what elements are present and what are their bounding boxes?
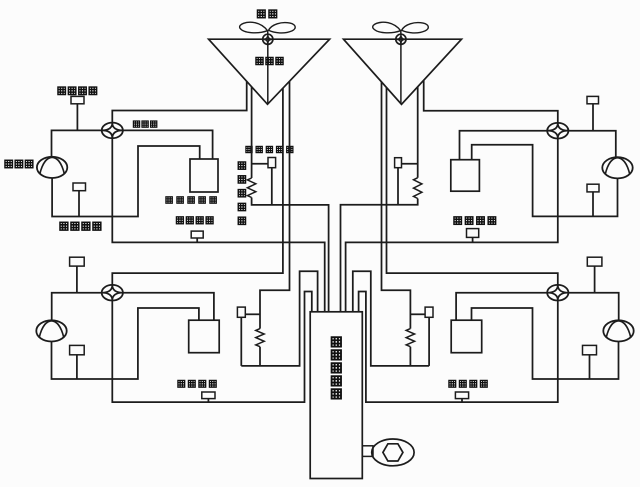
- four-way valve V4: [547, 285, 568, 301]
- condenser triangle E2: [344, 39, 462, 104]
- pressure switch label TL (压力开关): [176, 217, 183, 224]
- switch S8: [70, 345, 85, 354]
- wire: EV1 bottom stem: [271, 168, 273, 205]
- switch S10: [587, 257, 602, 266]
- compressor C2: [602, 157, 632, 178]
- wire: EV3 bottom stem: [240, 317, 242, 366]
- water pump PU: [372, 439, 414, 466]
- electronic expansion valve EV1: [268, 158, 276, 168]
- wire: EV2 bottom stem: [397, 168, 399, 205]
- wire: C1 bottom to low-pressure loop: [52, 146, 200, 217]
- compressor label (压缩机): [5, 160, 13, 168]
- capillary CT3 zigzag: [256, 329, 264, 347]
- wire: E1 right slope to capillary CT3: [260, 81, 290, 328]
- compressor C3: [36, 320, 66, 341]
- expansion valve EV3: [237, 307, 245, 317]
- condenser triangle E1: [209, 39, 330, 104]
- wire: E1 left slope down to capillary CT1: [251, 87, 253, 178]
- wire: CT4 loop to heat exchanger: [353, 271, 429, 366]
- wire: CT1 to heat exchanger: [252, 198, 329, 312]
- wire: valve V3 right port to separator A3: [123, 293, 214, 320]
- wire: C2 bottom loop to separator A2: [472, 145, 618, 217]
- capillary label vertical (储热毛细管): [238, 162, 245, 169]
- wire: S3 stem: [196, 238, 198, 242]
- high pressure switch label (高压开关): [58, 87, 66, 95]
- wire: valve V1 bottom to heat exchanger: [112, 138, 324, 311]
- compressor C4: [603, 320, 633, 341]
- wire: E1 left slope to valve V1 top: [112, 81, 246, 122]
- wire: EV3 inlet stub: [245, 313, 260, 315]
- low pressure switch label (低压开关): [60, 222, 68, 230]
- four-way valve label (四通阀): [133, 121, 139, 127]
- wire: S2 stem: [78, 191, 80, 217]
- wire: S4 stem: [592, 104, 594, 131]
- condenser label (冷凝器): [256, 57, 263, 64]
- wire: E2 right slope to valve V2 top: [424, 80, 558, 123]
- electronic expansion valve EV2: [395, 158, 402, 168]
- wire: S1 stem: [76, 104, 78, 131]
- pressure switch S12: [455, 392, 468, 399]
- wire: C4 bottom loop to separator A4: [472, 308, 619, 379]
- fan F2: [373, 22, 401, 33]
- expansion valve EV4: [425, 307, 433, 317]
- wire: CT2 to heat exchanger: [341, 199, 418, 312]
- four-way valve V2: [547, 123, 568, 139]
- wire: CT3 loop to heat exchanger: [241, 271, 317, 366]
- wire: valve V1 left port to compressor C1 top: [52, 130, 102, 156]
- water side heat exchanger HX: [310, 312, 362, 479]
- fan F1: [240, 22, 268, 33]
- pressure switch S3: [191, 231, 203, 238]
- wire: valve V2 right port to compressor C2 top: [569, 131, 616, 158]
- wire: E2 left slope to valve V4 top: [387, 88, 558, 285]
- wire: valve V3 bottom to heat exchanger: [112, 292, 311, 403]
- accumulator A1 (gas-liquid separator): [190, 159, 218, 192]
- accumulator A3 (gas-liquid separator): [189, 320, 220, 353]
- accumulator A4 (gas-liquid separator): [451, 320, 482, 353]
- four-way valve V3: [102, 285, 123, 301]
- wire: S8 stem: [76, 355, 78, 379]
- switch S7: [70, 257, 85, 266]
- pressure switch S9: [202, 392, 215, 399]
- fan label FJ1 (风机): [257, 10, 265, 18]
- compressor C1: [37, 157, 67, 178]
- wire: valve V4 bottom to heat exchanger: [359, 292, 558, 403]
- accumulator A2 (gas-liquid separator): [451, 160, 480, 192]
- wire: S9 stem: [207, 399, 209, 403]
- condenser E2 centre stem wire: [400, 45, 402, 104]
- condenser E1 centre stem wire: [267, 45, 269, 104]
- pressure switch label TR (压力开关): [454, 217, 462, 225]
- wire: valve V2 bottom to heat exchanger: [346, 139, 558, 312]
- wire: valve V2 left port to separator A2: [460, 131, 548, 160]
- wire: S5 stem: [592, 192, 594, 217]
- capillary CT4 zigzag: [406, 329, 414, 347]
- wire: C3 bottom loop to separator A3: [52, 308, 199, 379]
- wire: S7 stem: [76, 266, 78, 293]
- low pressure switch S2: [73, 183, 86, 191]
- high pressure switch S4: [587, 96, 599, 103]
- wire: valve V4 right port to compressor C4 top: [569, 293, 619, 321]
- capillary CT2 zigzag: [414, 178, 422, 199]
- wire: S6 stem: [472, 237, 474, 242]
- high pressure switch S1: [71, 96, 84, 103]
- wire: EEV1 inlet stub: [252, 163, 268, 165]
- pump connector stub: [362, 446, 373, 457]
- EEV label (电子膨胀阀): [246, 146, 252, 152]
- wire: valve V3 left port to compressor C3 top: [52, 293, 102, 321]
- wire: S10 stem: [594, 266, 596, 293]
- wire: E2 right slope down to capillary CT2: [417, 87, 419, 178]
- wire: valve V1 right port to separator A1: [123, 130, 213, 158]
- wire: E1 right slope to valve V3 top: [112, 88, 283, 285]
- switch S5: [587, 184, 599, 192]
- capillary CT1 zigzag: [247, 178, 255, 198]
- pressure switch S6: [467, 229, 479, 238]
- four-way valve V1: [102, 123, 123, 139]
- wire: EV4 inlet stub: [410, 313, 425, 315]
- wire: EV4 bottom stem: [428, 317, 430, 366]
- pressure switch label BR (压力开关): [449, 380, 456, 387]
- switch S11: [583, 345, 597, 354]
- pressure switch label BL (压力开关): [178, 380, 185, 387]
- wire: E2 left slope to capillary CT4: [382, 82, 411, 329]
- wire: S11 stem: [589, 355, 591, 379]
- wire: S12 stem: [461, 399, 463, 403]
- separator label (气液分离器): [166, 197, 172, 203]
- wire: EEV2 inlet stub: [402, 163, 418, 165]
- HX label vertical (水侧换热器): [332, 337, 342, 347]
- wire: valve V4 left port to separator A4: [456, 293, 547, 320]
